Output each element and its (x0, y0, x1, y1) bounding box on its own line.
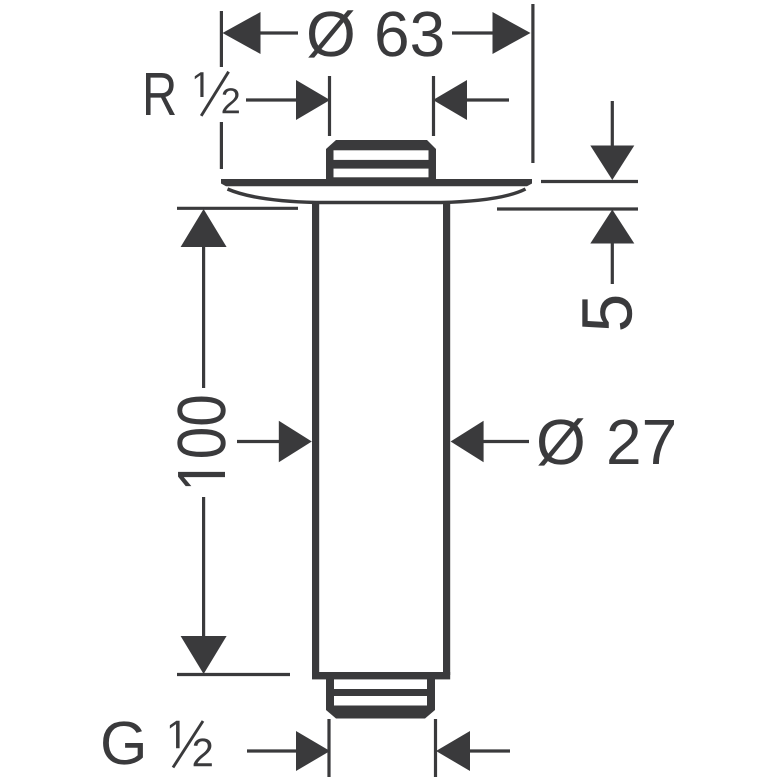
dimension 5: bottom extension line (497, 207, 638, 210)
dimension 100: down arrow (181, 636, 227, 674)
dimension 5: upper leader line (611, 101, 614, 146)
dimension Ø27: right tail (483, 440, 529, 443)
flange bottom contour (228, 189, 526, 203)
threaded nipple R1/2 (top connector) (326, 140, 436, 184)
dimension 100: top extension line (177, 207, 298, 210)
dimension G1/2: left extension line (327, 719, 330, 777)
dimension Ø63: left extension line (upper part) (220, 11, 223, 67)
dimension 100: lower dimension line (202, 497, 205, 638)
dimension 100: bottom extension line (177, 673, 290, 676)
dimension 5: top extension line (541, 180, 638, 183)
dimension G1/2: right extension line (434, 719, 437, 777)
flange top edge (221, 179, 532, 186)
dimension R1/2: fraction numerator 1 (195, 72, 204, 97)
dimension G1/2: fraction denominator 2 (194, 738, 212, 766)
dimension Ø63: left extension line (lower part) (220, 122, 223, 169)
dimension 100: upper dimension line (202, 245, 205, 388)
dimension G1/2: fraction slash (173, 721, 203, 768)
dimension G1/2: left tail (247, 749, 298, 752)
dimension Ø27: label (538, 418, 583, 465)
dimension Ø63: left arrow (223, 12, 261, 54)
dimension R1/2: right tail (465, 98, 509, 101)
dimension 100: label (rotated) (177, 396, 225, 486)
pipe left wall (312, 201, 319, 675)
dimension R1/2: fraction denominator 2 (223, 88, 239, 113)
dimension R1/2: label R (146, 73, 175, 115)
nipple thread groove 1 (334, 150, 429, 160)
dimension Ø63: label (308, 10, 353, 57)
dimension Ø27: right arrow (points left) (451, 421, 484, 463)
dimension 5: label (rotated) (582, 297, 632, 330)
pipe right wall (443, 201, 450, 675)
dimension Ø27: left tail (237, 440, 279, 443)
dimension R1/2: right arrow (points left) (433, 80, 467, 120)
dimension 100: up arrow (181, 209, 227, 247)
dimension G1/2: left arrow (points right) (296, 731, 330, 771)
dimension 5: lower leader line (611, 243, 614, 284)
dimension Ø63: right tail (452, 31, 494, 34)
dimension Ø27: left arrow (points right) (279, 421, 312, 463)
nipple thread groove 2 (334, 169, 429, 178)
bottom thread groove 2 (334, 696, 427, 706)
threaded end G1/2 (bottom) (326, 679, 435, 719)
dimension 5: down arrow (590, 146, 634, 181)
dimension G1/2: fraction numerator 1 (170, 721, 180, 749)
dimension R1/2: right extension line (432, 76, 435, 136)
dimension R1/2: left arrow (points right) (296, 80, 330, 120)
dimension R1/2: left extension line (328, 76, 331, 136)
dimension R1/2: left tail (246, 98, 298, 101)
dimension 5: up arrow (590, 210, 634, 244)
pipe bottom shoulder (312, 672, 450, 679)
dimension Ø63: right extension line (531, 4, 534, 163)
dimension R1/2: fraction slash (201, 72, 228, 116)
dimension G1/2: right tail (468, 749, 510, 752)
dimension Ø63: left tail (258, 31, 298, 34)
dimension G1/2: label G (103, 721, 143, 764)
bottom thread groove 1 (334, 679, 427, 689)
dimension Ø63: right arrow (493, 12, 531, 54)
dimension G1/2: right arrow (points left) (436, 731, 470, 771)
